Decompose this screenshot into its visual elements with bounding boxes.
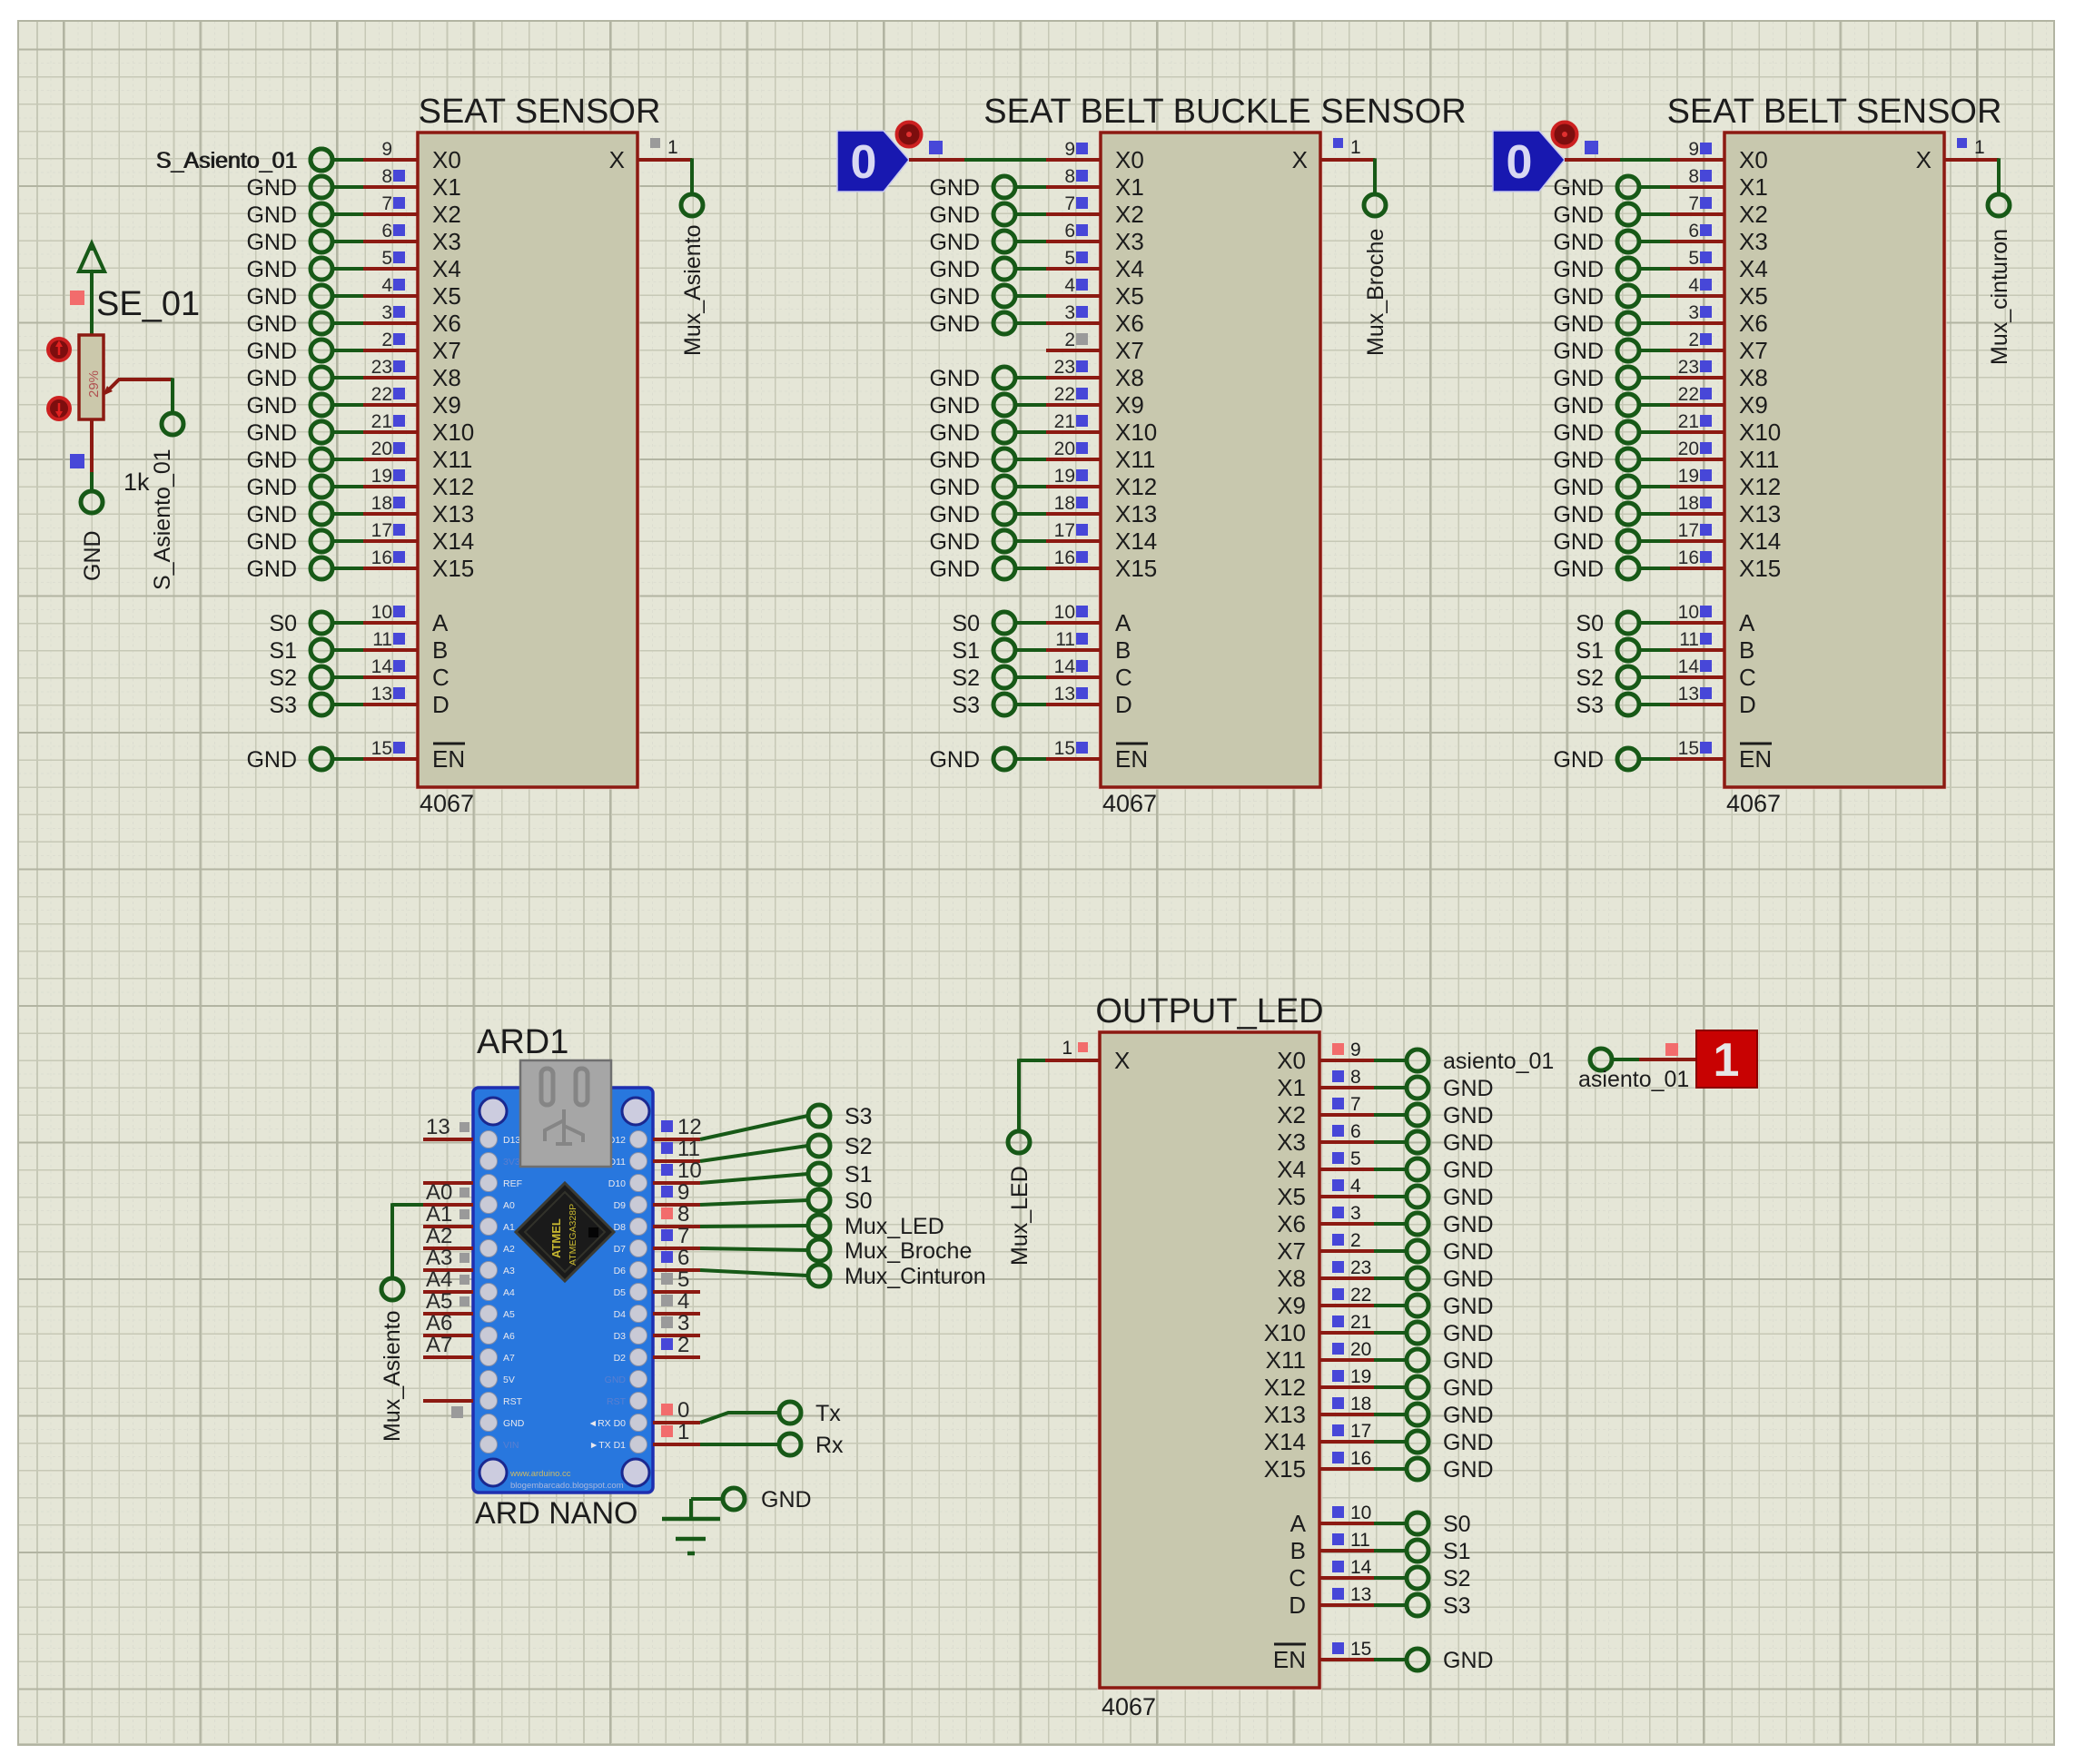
svg-text:6: 6 xyxy=(1688,221,1699,241)
pin 11 (B) stub xyxy=(1670,629,1724,650)
svg-text:4: 4 xyxy=(1350,1176,1361,1197)
pin 22 (X9) stub xyxy=(1046,384,1101,405)
svg-text:X4: X4 xyxy=(432,255,461,282)
svg-text:2: 2 xyxy=(381,330,392,350)
pin 20 (X11) stub xyxy=(1046,439,1101,459)
svg-text:A5: A5 xyxy=(426,1289,452,1314)
pin 18 (X13) stub xyxy=(363,493,418,514)
svg-text:15: 15 xyxy=(1054,738,1075,759)
terminal Mux_cinturon xyxy=(1987,194,2012,365)
wire GND to pin 7 xyxy=(1638,212,1670,216)
svg-text:X11: X11 xyxy=(1266,1346,1306,1374)
wire pin 4 to GND xyxy=(1374,1195,1407,1198)
arduino pin stub A3 xyxy=(423,1246,473,1270)
svg-text:A0: A0 xyxy=(426,1180,452,1205)
terminal Mux_LED xyxy=(808,1214,944,1239)
svg-text:X6: X6 xyxy=(432,310,461,337)
pin 7 (X2) stub xyxy=(1670,193,1724,214)
terminal GND (arduino) xyxy=(723,1487,812,1513)
svg-text:GND: GND xyxy=(1443,1348,1494,1374)
pin 3 (X6) stub xyxy=(1046,302,1101,323)
pin 19 (X12) stub xyxy=(1319,1366,1374,1387)
svg-text:8: 8 xyxy=(381,166,392,187)
chip U1 SEAT SENSOR (4067) xyxy=(418,93,660,817)
chip U4 OUTPUT_LED (4067) xyxy=(1095,992,1323,1720)
svg-text:3: 3 xyxy=(381,302,392,323)
terminal GND xyxy=(1407,1158,1494,1183)
terminal GND xyxy=(1553,529,1639,555)
wire GND to pin 7 xyxy=(331,212,363,216)
svg-text:GND: GND xyxy=(929,475,980,500)
svg-text:Mux_LED: Mux_LED xyxy=(1007,1166,1033,1266)
svg-text:21: 21 xyxy=(1054,411,1075,432)
svg-text:X10: X10 xyxy=(1264,1319,1306,1346)
svg-text:Rx: Rx xyxy=(815,1433,844,1458)
pin 10 (A) stub xyxy=(363,602,418,623)
svg-text:Mux_LED: Mux_LED xyxy=(845,1214,944,1239)
svg-text:17: 17 xyxy=(1678,520,1699,541)
terminal GND xyxy=(929,393,1015,419)
svg-text:18: 18 xyxy=(1350,1394,1371,1414)
power arrow (top of pot) xyxy=(79,243,104,335)
svg-text:X6: X6 xyxy=(1115,310,1144,337)
svg-text:15: 15 xyxy=(1678,738,1699,759)
wire S0 xyxy=(700,1200,808,1205)
probe square on wire xyxy=(929,141,943,154)
wire S1 xyxy=(700,1174,808,1183)
svg-text:8: 8 xyxy=(1350,1067,1361,1088)
svg-text:GND: GND xyxy=(929,420,980,446)
arduino pin stub 0 xyxy=(653,1398,700,1423)
terminal GND xyxy=(246,502,332,527)
svg-text:GND: GND xyxy=(1553,311,1604,337)
svg-text:X14: X14 xyxy=(1739,527,1781,555)
svg-text:23: 23 xyxy=(1054,357,1075,378)
terminal GND xyxy=(246,475,332,500)
svg-text:GND: GND xyxy=(1553,230,1604,255)
svg-text:X3: X3 xyxy=(1277,1128,1306,1156)
pin 7 (X2) stub xyxy=(363,193,418,214)
svg-text:GND: GND xyxy=(929,448,980,473)
svg-text:GND: GND xyxy=(1443,1103,1494,1128)
svg-text:S1: S1 xyxy=(269,638,297,664)
wire pin 17 to GND xyxy=(1374,1440,1407,1444)
pin 18 (X13) stub xyxy=(1046,493,1101,514)
svg-text:GND: GND xyxy=(1443,1185,1494,1210)
svg-text:4067: 4067 xyxy=(420,790,474,817)
svg-text:9: 9 xyxy=(1064,139,1075,160)
svg-text:0: 0 xyxy=(677,1398,689,1423)
wire Mux_Cinturon xyxy=(700,1270,808,1276)
svg-text:B: B xyxy=(1739,636,1754,664)
arduino pin stub 5 xyxy=(653,1267,700,1292)
pin 1 (X) stub xyxy=(1320,137,1375,160)
svg-text:23: 23 xyxy=(1350,1257,1371,1278)
svg-text:14: 14 xyxy=(1350,1557,1372,1578)
pin 2 (X7) stub xyxy=(363,330,418,350)
wire S0 to pin 10 xyxy=(1014,621,1046,625)
pin 14 (C) stub xyxy=(1670,656,1724,677)
wire GND to pin 17 xyxy=(331,539,363,543)
svg-text:C: C xyxy=(1289,1564,1306,1592)
arduino pin stub 2 xyxy=(653,1333,700,1357)
terminal GND xyxy=(246,284,332,310)
svg-text:X13: X13 xyxy=(1264,1401,1306,1428)
terminal GND xyxy=(246,202,332,228)
wire S0 to pin 10 xyxy=(331,621,363,625)
terminal GND xyxy=(1553,230,1639,255)
wire GND to pin 3 xyxy=(1014,321,1046,325)
wire GND to pin 22 xyxy=(1014,403,1046,407)
pin 1 (X) stub xyxy=(1944,137,1999,160)
svg-text:Mux_Broche: Mux_Broche xyxy=(845,1238,972,1264)
terminal GND xyxy=(929,475,1015,500)
terminal GND xyxy=(246,175,332,201)
svg-text:A2: A2 xyxy=(426,1224,452,1248)
wire GND to pin 15 xyxy=(1638,757,1670,761)
terminal GND xyxy=(929,448,1015,473)
pin 15 (EN) stub xyxy=(1670,738,1724,759)
pot bottom stub xyxy=(90,419,94,472)
pin 7 (X2) stub xyxy=(1046,193,1101,214)
svg-text:X0: X0 xyxy=(1115,146,1144,173)
svg-text:7: 7 xyxy=(381,193,392,214)
svg-text:20: 20 xyxy=(1678,439,1699,459)
terminal GND xyxy=(929,284,1015,310)
svg-text:GND: GND xyxy=(246,230,297,255)
wire pin 19 to GND xyxy=(1374,1385,1407,1389)
svg-text:A3: A3 xyxy=(503,1266,515,1276)
wire S3 xyxy=(700,1116,808,1139)
svg-text:8: 8 xyxy=(1064,166,1075,187)
pin 7 (X2) stub xyxy=(1319,1094,1374,1115)
pin label EN xyxy=(1739,744,1772,773)
arduino pin stub A7 xyxy=(423,1333,473,1357)
svg-text:GND: GND xyxy=(246,475,297,500)
svg-text:2: 2 xyxy=(677,1333,689,1357)
wire pin 2 to GND xyxy=(1374,1249,1407,1253)
wire pin 21 to GND xyxy=(1374,1331,1407,1335)
svg-text:16: 16 xyxy=(371,547,392,568)
wire S_Asiento_01 to chip1 X0 xyxy=(332,158,364,162)
wire S3 to pin 13 xyxy=(331,703,363,706)
svg-text:B: B xyxy=(432,636,448,664)
svg-text:GND: GND xyxy=(1443,1648,1494,1673)
svg-text:10: 10 xyxy=(1678,602,1699,623)
svg-text:X7: X7 xyxy=(432,337,461,364)
wire Rx xyxy=(700,1443,779,1446)
arduino pin stub A4 xyxy=(423,1267,473,1292)
pin 8 (X1) stub xyxy=(1319,1067,1374,1088)
terminal GND xyxy=(246,557,332,582)
svg-text:A: A xyxy=(1115,609,1131,636)
arduino pin stub 3 xyxy=(653,1311,700,1335)
svg-text:OUTPUT_LED: OUTPUT_LED xyxy=(1095,992,1323,1030)
svg-text:19: 19 xyxy=(1678,466,1699,487)
wire GND to pin 15 xyxy=(331,757,363,761)
svg-text:GND: GND xyxy=(1443,1403,1494,1428)
svg-text:D5: D5 xyxy=(614,1287,627,1298)
svg-text:14: 14 xyxy=(371,656,393,677)
terminal S0 xyxy=(1576,611,1639,636)
svg-text:4: 4 xyxy=(1064,275,1075,296)
svg-text:17: 17 xyxy=(371,520,392,541)
terminal GND xyxy=(246,311,332,337)
svg-text:ATMEGA328P: ATMEGA328P xyxy=(568,1204,578,1266)
svg-text:GND: GND xyxy=(1443,1212,1494,1237)
svg-text:X5: X5 xyxy=(1739,282,1768,310)
wire A0 to Mux_Asiento xyxy=(392,1203,423,1207)
wire GND to pin 5 xyxy=(1014,267,1046,271)
pin 8 (X1) stub xyxy=(1670,166,1724,187)
terminal GND xyxy=(1407,1430,1494,1455)
pin 15 (EN) stub xyxy=(1046,738,1101,759)
pin 2 (X7) stub xyxy=(1319,1230,1374,1251)
svg-text:22: 22 xyxy=(1350,1285,1371,1306)
pin 5 (X4) stub xyxy=(1319,1148,1374,1169)
svg-text:X5: X5 xyxy=(1277,1183,1306,1210)
svg-text:SEAT BELT BUCKLE SENSOR: SEAT BELT BUCKLE SENSOR xyxy=(983,93,1466,131)
pin 23 (X8) stub xyxy=(1046,357,1101,378)
pin 22 (X9) stub xyxy=(1670,384,1724,405)
svg-text:RST: RST xyxy=(607,1396,627,1407)
svg-text:Mux_Cinturon: Mux_Cinturon xyxy=(845,1264,986,1289)
terminal S2 xyxy=(1407,1566,1471,1592)
logic state 0 source xyxy=(837,131,909,192)
svg-text:GND: GND xyxy=(929,230,980,255)
terminal S0 xyxy=(1407,1512,1471,1537)
pin 16 (X15) stub xyxy=(1046,547,1101,568)
terminal S_Asiento_01 (chip1 X0) xyxy=(156,148,332,173)
wire S2 to pin 14 xyxy=(1638,675,1670,679)
terminal GND xyxy=(1553,257,1639,282)
svg-text:6: 6 xyxy=(677,1246,689,1270)
terminal GND xyxy=(1407,1239,1494,1265)
pin 21 (X10) stub xyxy=(1319,1312,1374,1333)
wire GND to pin 18 xyxy=(1638,512,1670,516)
svg-text:8: 8 xyxy=(1688,166,1699,187)
wiper arrow xyxy=(103,379,173,396)
wire S0 to pin 10 xyxy=(1638,621,1670,625)
svg-text:7: 7 xyxy=(1064,193,1075,214)
svg-text:www.arduino.cc: www.arduino.cc xyxy=(509,1469,571,1479)
terminal S1 xyxy=(952,638,1015,664)
svg-text:7: 7 xyxy=(677,1224,689,1248)
svg-text:X0: X0 xyxy=(432,146,461,173)
svg-text:X: X xyxy=(1292,146,1308,173)
terminal asiento_01 xyxy=(1407,1049,1554,1074)
svg-text:S3: S3 xyxy=(269,693,297,718)
wire pin 11 to S1 xyxy=(1374,1549,1407,1552)
terminal GND xyxy=(1553,448,1639,473)
svg-text:X9: X9 xyxy=(1277,1292,1306,1319)
svg-text:1: 1 xyxy=(1062,1038,1072,1059)
svg-text:11: 11 xyxy=(1055,629,1075,650)
wire logic0 to pin 9 xyxy=(909,158,964,162)
voltage indicator bottom xyxy=(48,398,70,419)
svg-text:D9: D9 xyxy=(614,1200,627,1211)
svg-text:S1: S1 xyxy=(1576,638,1604,664)
svg-text:GND: GND xyxy=(246,747,297,773)
terminal GND xyxy=(929,529,1015,555)
wire GND to pin 8 xyxy=(331,185,363,189)
svg-text:GND: GND xyxy=(1553,393,1604,419)
terminal Rx xyxy=(779,1433,844,1458)
svg-text:X4: X4 xyxy=(1739,255,1768,282)
svg-text:GND: GND xyxy=(929,557,980,582)
wire GND to pin 2 xyxy=(1638,349,1670,352)
wire GND to pin 16 xyxy=(331,567,363,570)
pin 21 (X10) stub xyxy=(363,411,418,432)
svg-text:4067: 4067 xyxy=(1102,1693,1156,1720)
terminal GND xyxy=(929,366,1015,391)
wire S2 to pin 14 xyxy=(331,675,363,679)
svg-text:S2: S2 xyxy=(1576,665,1604,691)
pin 21 (X10) stub xyxy=(1670,411,1724,432)
svg-text:B: B xyxy=(1290,1537,1306,1564)
wire GND to pin 20 xyxy=(331,458,363,461)
svg-text:S0: S0 xyxy=(269,611,297,636)
terminal GND xyxy=(1553,175,1639,201)
terminal S0 xyxy=(269,611,332,636)
pin 18 (X13) stub xyxy=(1670,493,1724,514)
terminal GND xyxy=(1407,1076,1494,1101)
svg-text:A4: A4 xyxy=(426,1267,452,1292)
svg-text:ARD1: ARD1 xyxy=(477,1023,568,1061)
svg-text:1: 1 xyxy=(677,1420,689,1444)
svg-text:9: 9 xyxy=(677,1180,689,1205)
svg-text:X15: X15 xyxy=(432,555,474,582)
svg-text:X9: X9 xyxy=(1115,391,1144,419)
svg-text:20: 20 xyxy=(1054,439,1075,459)
terminal GND xyxy=(246,529,332,555)
terminal S3 xyxy=(952,693,1015,718)
svg-text:10: 10 xyxy=(677,1158,702,1183)
pin 9 (X0) stub xyxy=(1319,1040,1374,1060)
svg-text:20: 20 xyxy=(1350,1339,1371,1360)
terminal GND (pot) xyxy=(80,491,105,581)
terminal GND xyxy=(1407,1375,1494,1401)
wire GND to pin 3 xyxy=(331,321,363,325)
svg-text:GND: GND xyxy=(1553,420,1604,446)
terminal asiento_01 (right) xyxy=(1578,1049,1689,1092)
pin 9 (X0) stub xyxy=(363,139,418,160)
svg-text:X6: X6 xyxy=(1739,310,1768,337)
svg-text:GND: GND xyxy=(929,393,980,419)
wire GND to pin 8 xyxy=(1638,185,1670,189)
terminal Mux_Asiento xyxy=(680,194,706,356)
svg-text:21: 21 xyxy=(371,411,392,432)
red run indicator xyxy=(897,123,922,147)
svg-text:S0: S0 xyxy=(845,1188,873,1214)
svg-text:X3: X3 xyxy=(432,228,461,255)
svg-text:5: 5 xyxy=(1064,248,1075,269)
svg-text:X7: X7 xyxy=(1739,337,1768,364)
wire GND to pin 8 xyxy=(1014,185,1046,189)
pin 21 (X10) stub xyxy=(1046,411,1101,432)
svg-text:A7: A7 xyxy=(426,1333,452,1357)
svg-text:X2: X2 xyxy=(432,201,461,228)
svg-text:X4: X4 xyxy=(1277,1156,1306,1183)
terminal S3 xyxy=(1407,1593,1471,1619)
svg-text:GND: GND xyxy=(1553,175,1604,201)
svg-text:2: 2 xyxy=(1688,330,1699,350)
svg-text:S3: S3 xyxy=(1576,693,1604,718)
svg-text:D7: D7 xyxy=(614,1244,627,1255)
svg-text:A7: A7 xyxy=(503,1353,515,1364)
svg-text:X6: X6 xyxy=(1277,1210,1306,1237)
svg-text:GND: GND xyxy=(1443,1239,1494,1265)
svg-text:15: 15 xyxy=(1350,1639,1371,1660)
svg-text:GND: GND xyxy=(929,502,980,527)
wire X to terminal xyxy=(1373,158,1377,194)
pin 6 (X3) stub xyxy=(363,221,418,241)
terminal S2 xyxy=(952,665,1015,691)
pin 4 (X5) stub xyxy=(363,275,418,296)
svg-text:A6: A6 xyxy=(503,1331,515,1342)
terminal S2 xyxy=(269,665,332,691)
terminal GND xyxy=(1553,311,1639,337)
svg-text:asiento_01: asiento_01 xyxy=(1443,1049,1554,1074)
svg-text:X: X xyxy=(1916,146,1932,173)
arduino pin stub 12 xyxy=(653,1115,702,1139)
terminal S1 xyxy=(269,638,332,664)
pin 2 (X7) stub xyxy=(1046,330,1101,350)
wire GND to pin 16 xyxy=(1014,567,1046,570)
svg-text:5: 5 xyxy=(1688,248,1699,269)
svg-text:GND: GND xyxy=(929,529,980,555)
svg-text:2: 2 xyxy=(1064,330,1075,350)
svg-text:A0: A0 xyxy=(503,1200,515,1211)
svg-text:D2: D2 xyxy=(614,1353,627,1364)
svg-text:5: 5 xyxy=(677,1267,689,1292)
pin 6 (X3) stub xyxy=(1046,221,1101,241)
terminal S_Asiento_01 xyxy=(155,148,332,173)
svg-text:GND: GND xyxy=(1443,1294,1494,1319)
terminal GND xyxy=(929,557,1015,582)
terminal Mux_Asiento xyxy=(380,1278,405,1442)
terminal GND xyxy=(1407,1103,1494,1128)
svg-text:D10: D10 xyxy=(608,1178,626,1189)
svg-text:22: 22 xyxy=(1054,384,1075,405)
chip U3 SEAT BELT SENSOR (4067) xyxy=(1667,93,2002,817)
wire GND to pin 6 xyxy=(331,240,363,243)
svg-text:asiento_01: asiento_01 xyxy=(1578,1067,1689,1092)
svg-text:X10: X10 xyxy=(1739,419,1781,446)
svg-text:GND: GND xyxy=(246,502,297,527)
svg-text:22: 22 xyxy=(371,384,392,405)
wire pin 14 to S2 xyxy=(1374,1576,1407,1580)
svg-text:X14: X14 xyxy=(432,527,474,555)
svg-text:GND: GND xyxy=(1443,1430,1494,1455)
terminal Mux_Broche xyxy=(808,1238,972,1264)
wire X to terminal xyxy=(1997,158,2001,194)
pin 22 (X9) stub xyxy=(363,384,418,405)
chip U2 SEAT BELT BUCKLE SENSOR (4067) xyxy=(983,93,1466,817)
svg-text:11: 11 xyxy=(372,629,392,650)
USB connector xyxy=(520,1060,611,1167)
svg-text:GND: GND xyxy=(1553,475,1604,500)
svg-text:X2: X2 xyxy=(1739,201,1768,228)
pin label EN xyxy=(432,744,465,773)
svg-text:S_Asiento_01: S_Asiento_01 xyxy=(156,148,298,173)
Arduino Nano board xyxy=(473,1088,653,1493)
wire S2 xyxy=(700,1146,808,1161)
wire pin 18 to GND xyxy=(1374,1413,1407,1416)
svg-text:X13: X13 xyxy=(432,500,474,527)
wire pin 3 to GND xyxy=(1374,1222,1407,1226)
pin 18 (X13) stub xyxy=(1319,1394,1374,1414)
